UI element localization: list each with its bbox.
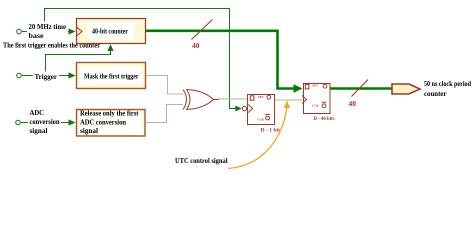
label: ADC conversion signal [28, 109, 61, 136]
terminal: ADC input port [16, 120, 21, 125]
bus width slash 1 [192, 20, 213, 40]
wire: trigger input [22, 75, 71, 77]
bus: FF2 Q output to port (thick green) [330, 87, 393, 90]
svg-text:SET: SET [312, 84, 318, 88]
wire: XOR output stub [214, 99, 220, 101]
wire: mask output to XOR top input (pale) [146, 76, 183, 95]
svg-text:SET: SET [258, 95, 264, 99]
svg-text:CLR: CLR [312, 103, 319, 107]
svg-text:ADC conversion: ADC conversion [80, 118, 126, 126]
svg-text:base: base [29, 32, 44, 40]
block: mask the first trigger [77, 63, 146, 89]
svg-text:signal: signal [80, 127, 98, 135]
wire: release output to XOR bottom input (pale) [146, 105, 183, 123]
svg-text:ADC: ADC [30, 109, 45, 117]
svg-text:conversion: conversion [30, 118, 60, 126]
svg-text:signal: signal [30, 127, 48, 135]
label: 20 MHz time base [27, 22, 68, 41]
arrow: big arrowhead into FF2 D [294, 84, 303, 93]
svg-text:40: 40 [349, 99, 357, 108]
arrow: into mask block [69, 72, 76, 78]
svg-text:50 ns clock period: 50 ns clock period [424, 80, 471, 88]
svg-text:20 MHz time: 20 MHz time [29, 23, 67, 31]
svg-text:CLR: CLR [258, 118, 265, 122]
svg-text:D - 40 bits: D - 40 bits [314, 116, 336, 122]
svg-text:40: 40 [192, 41, 200, 50]
svg-text:40-bit counter: 40-bit counter [92, 28, 128, 36]
svg-text:UTC control signal: UTC control signal [175, 157, 228, 165]
arrow: into FF1 clock bubble [235, 106, 242, 112]
block: 40-bit counter [77, 19, 146, 44]
wire: ADC conversion input [21, 122, 71, 124]
label: Trigger [33, 72, 59, 82]
svg-text:Mask the first trigger: Mask the first trigger [84, 73, 139, 81]
svg-text:Release only the first: Release only the first [80, 110, 139, 118]
wire: 20 MHz time base input [22, 31, 71, 33]
gate: XOR U1 [183, 90, 214, 110]
flip-flop U2: D - 1 bit [242, 95, 280, 134]
bus: counter 40-bit output to FF2 D (thick green) [146, 31, 295, 89]
arrow: into counter clock input [69, 28, 242, 125]
terminal: trigger input port [17, 73, 22, 78]
wire: XOR output to FF1 D (pale) [218, 98, 248, 100]
bus width slash 2 [352, 80, 369, 97]
svg-text:Trigger: Trigger [35, 73, 58, 81]
terminal: output port pentagon [392, 84, 420, 94]
block: release only the first ADC conversion signal [77, 110, 146, 137]
svg-text:counter: counter [424, 90, 447, 98]
wire: trigger branch to counter enable [46, 47, 111, 76]
terminal: 20 MHz input port [17, 29, 22, 34]
wire: FF1 Q to FF2 clock (pale) [275, 99, 304, 101]
annotation: orange curved arrow [228, 107, 287, 169]
svg-text:D - 1 bit: D - 1 bit [261, 127, 281, 133]
wire: clock loop from 20MHz branch to FF1 clock [45, 9, 240, 109]
arrow: into release block [69, 119, 76, 125]
arrow: counter enable (up) [107, 44, 113, 51]
flip-flop U3: D - 40 bits [302, 84, 335, 122]
